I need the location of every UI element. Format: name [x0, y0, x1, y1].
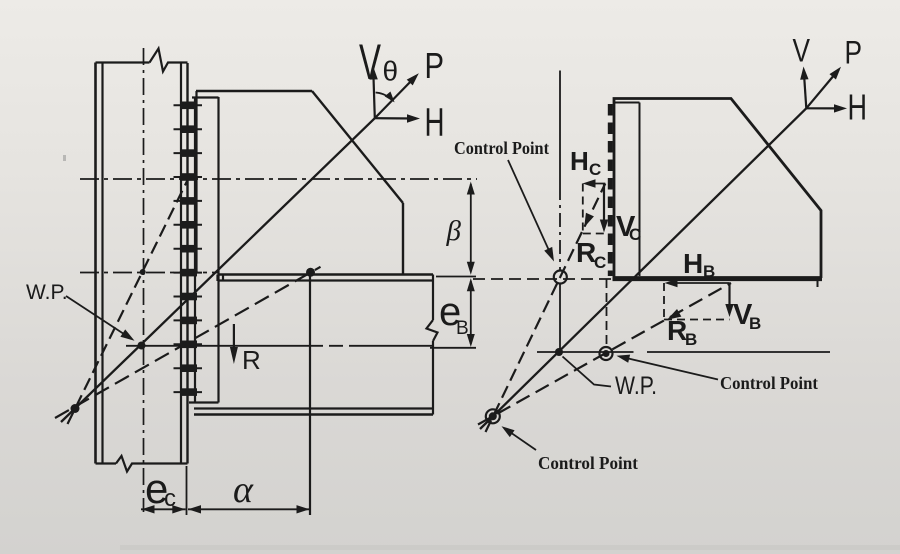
gusset plate (left) right edge: [402, 203, 404, 274]
bolt row 1: [174, 104, 203, 106]
svg-text:C: C: [589, 160, 601, 179]
column right flange inner line: [180, 63, 182, 464]
work point dot (left): [138, 342, 146, 350]
work point dot (right): [555, 348, 563, 356]
alpha right extension line: [309, 272, 311, 515]
column left flange inner line: [101, 63, 103, 464]
bolt row 11: [174, 343, 203, 345]
eB lower tick: [430, 347, 476, 349]
bolt point dot on beam flange: [306, 268, 315, 277]
flange-level dash-dot line: [80, 272, 218, 274]
HB arrow: [668, 282, 730, 284]
column top edge with break: [96, 49, 188, 72]
svg-text:W.P.: W.P.: [26, 281, 68, 304]
W.P. leader (right): [563, 357, 612, 387]
bolt row 7: [174, 248, 203, 250]
svg-text:W.P.: W.P.: [615, 372, 657, 400]
RB arrowhead: [665, 309, 682, 324]
svg-text:R: R: [242, 345, 261, 375]
R arrow: [233, 324, 235, 358]
control point 2 leader arrow: [622, 357, 718, 380]
svg-text:B: B: [685, 330, 697, 349]
column centerline (dash-dot): [143, 48, 145, 512]
scan artifacts: [63, 155, 900, 550]
bolts on column flange: [174, 102, 203, 396]
eC dimension line: [141, 508, 186, 510]
bottom streak: [120, 545, 900, 550]
gusset bottom right end tick: [817, 281, 819, 287]
bolt row 4: [174, 176, 203, 178]
theta arc arrow: [376, 93, 393, 101]
svg-text:Control Point: Control Point: [720, 373, 818, 393]
control point 3 circle and dot: [486, 409, 500, 423]
control point 2 circle and dot: [600, 347, 613, 360]
VC arrow: [603, 184, 605, 228]
bolt row 5: [174, 200, 203, 202]
column right flange outer line: [186, 63, 188, 464]
bolt line (thick dashed): [608, 104, 613, 276]
bolt row 8: [174, 272, 203, 274]
beam centerline dash-dot: [126, 345, 433, 347]
svg-text:P: P: [425, 45, 445, 86]
svg-text:C: C: [629, 225, 641, 244]
RB dashed line: [478, 283, 731, 425]
V arrow (right axes): [804, 71, 807, 108]
bolt row 3: [174, 152, 203, 154]
bolt row 6: [174, 224, 203, 226]
HC/VC dashed rectangle sides: [583, 184, 605, 234]
column control vertical line: [559, 71, 561, 187]
V arrow (left axes): [373, 71, 375, 118]
control point 1 leader arrow: [508, 160, 552, 256]
svg-text:V: V: [359, 34, 381, 90]
svg-text:B: B: [703, 262, 715, 281]
svg-text:H: H: [848, 87, 868, 128]
gusset plate (right) thick bottom edge: [613, 276, 823, 281]
svg-text:β: β: [446, 215, 462, 247]
bolt row 10: [174, 319, 203, 321]
splice plate strip: [614, 103, 640, 277]
beam centerline (right): [537, 351, 830, 353]
dashed vertical through control point 2: [606, 279, 608, 348]
svg-text:c: c: [164, 485, 176, 512]
svg-text:H: H: [425, 101, 445, 145]
svg-text:α: α: [233, 469, 254, 511]
upper dash-dot line (bolt group centroid level): [80, 178, 477, 180]
small dot at centerline crossing: [140, 269, 146, 275]
beta dimension line: [470, 184, 472, 270]
svg-text:H: H: [683, 248, 703, 279]
30-degree dashed line (beam control line): [55, 267, 321, 418]
H arrow (right axes): [806, 107, 842, 109]
bolt row 9: [174, 296, 203, 298]
lower convergence point dot (left): [71, 404, 80, 413]
H arrow (left axes): [375, 117, 415, 120]
control point 3 leader arrow: [507, 430, 536, 450]
svg-text:C: C: [594, 253, 606, 272]
RC arrowhead: [580, 213, 594, 229]
VB arrow: [728, 284, 730, 313]
gusset plate (left) sloped edge: [312, 91, 403, 203]
svg-text:Control Point: Control Point: [538, 453, 638, 473]
bolt row 13: [174, 391, 203, 393]
P arrow (right axes): [806, 70, 839, 109]
gusset plate (right) outline: [614, 99, 821, 279]
column left flange outer line: [94, 63, 97, 464]
svg-text:V: V: [793, 33, 811, 69]
bolt row 2: [174, 128, 203, 130]
brace axis solid line: [61, 118, 375, 422]
svg-text:B: B: [749, 314, 761, 333]
beam bottom flange lines: [194, 407, 433, 409]
eB dimension line: [470, 281, 472, 348]
bolt row 12: [174, 367, 203, 369]
HB/VB dashed rectangle sides: [664, 283, 730, 320]
connection angle lines at column face: [189, 97, 219, 403]
beam right end with break: [427, 275, 438, 415]
svg-text:θ: θ: [383, 56, 399, 87]
column bottom edge with break: [96, 456, 188, 472]
gusset plate (left) left edge: [195, 91, 197, 272]
faint speck: [63, 155, 66, 161]
eB upper tick: [436, 276, 476, 278]
svg-text:Control Point: Control Point: [454, 138, 549, 158]
eC left extension (centerline already) / right extension line: [186, 466, 188, 515]
beam end verticals: [218, 275, 224, 282]
RC dashed line: [486, 184, 606, 433]
dashed horizontal at gusset bottom level: [473, 278, 612, 280]
svg-text:B: B: [456, 318, 469, 339]
HC arrow: [586, 183, 605, 185]
W.P. leader arrow (left): [66, 296, 130, 338]
svg-text:H: H: [570, 146, 589, 176]
P arrow (left axes): [375, 77, 416, 119]
steep dashed line (column control line): [68, 171, 193, 424]
alpha dimension line: [188, 508, 310, 510]
brace axis solid line (right): [480, 108, 806, 429]
gusset plate (left) top edge: [196, 90, 312, 92]
control point 1 circle: [554, 271, 567, 284]
beam top flange lines: [218, 273, 434, 275]
svg-text:P: P: [845, 35, 863, 71]
